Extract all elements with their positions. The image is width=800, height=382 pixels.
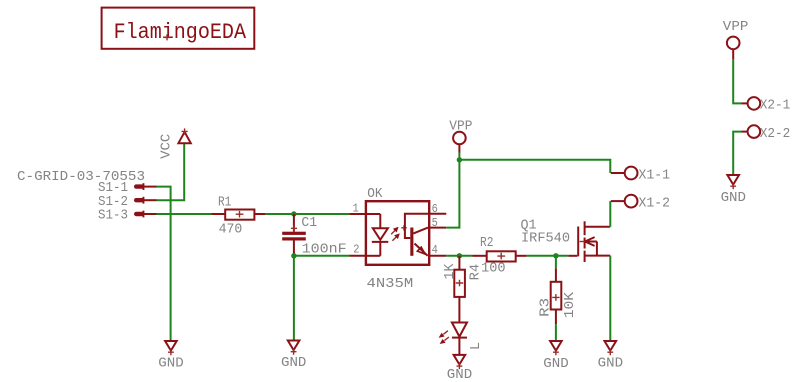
opto pin 1 xyxy=(349,203,366,216)
wire source down to GND xyxy=(609,256,611,341)
junction at C1 bottom xyxy=(291,253,296,258)
svg-text:GND: GND xyxy=(598,355,623,371)
pin S1-3 xyxy=(98,207,157,223)
svg-text:R2: R2 xyxy=(480,235,493,251)
svg-text:4N35M: 4N35M xyxy=(367,276,414,292)
wire R3 to GND xyxy=(555,324,557,340)
opto pin 2 xyxy=(350,244,366,257)
svg-text:GND: GND xyxy=(447,367,472,382)
svg-text:GND: GND xyxy=(158,355,183,371)
svg-text:2: 2 xyxy=(353,244,359,257)
resistor R4 xyxy=(442,256,483,297)
wire junction down to R3 xyxy=(555,256,557,269)
svg-text:10K: 10K xyxy=(562,291,578,318)
svg-text:X1-1: X1-1 xyxy=(639,167,671,183)
svg-text:X2-1: X2-1 xyxy=(760,98,791,114)
svg-text:GND: GND xyxy=(543,356,568,372)
pin X2-2 xyxy=(742,125,791,142)
ground GND (left, under S1) xyxy=(158,341,183,371)
LED D (value L) xyxy=(452,297,484,355)
junction at C1 top xyxy=(291,211,296,216)
ground GND (under C1) xyxy=(281,341,306,372)
svg-text:R1: R1 xyxy=(218,195,231,211)
resistor R2 xyxy=(473,235,527,276)
supply VCC xyxy=(159,128,191,159)
svg-text:R4: R4 xyxy=(467,264,483,281)
supply VPP (top right) xyxy=(723,19,749,59)
svg-text:L: L xyxy=(468,342,484,350)
transistor Q1 MOSFET symbol xyxy=(568,221,610,262)
svg-text:IRF540: IRF540 xyxy=(521,231,570,247)
svg-text:FlamingoEDA: FlamingoEDA xyxy=(114,19,247,45)
pin X2-1 xyxy=(742,97,791,114)
resistor R3 xyxy=(538,268,578,324)
wire pin5 to VPP column xyxy=(446,160,459,228)
junction VPP node xyxy=(457,157,462,162)
opto light arrows xyxy=(391,227,400,241)
pin S1-1 xyxy=(98,180,157,196)
opto origin cross xyxy=(401,225,407,231)
svg-text:GND: GND xyxy=(281,355,306,371)
pin S1-2 xyxy=(98,194,157,210)
junction pin4/R4 xyxy=(457,253,462,258)
wire S1-3 to R1 xyxy=(157,213,212,215)
logo frame FlamingoEDA xyxy=(102,8,255,49)
opto-coupler OK 4N35M xyxy=(366,186,429,292)
svg-text:X1-2: X1-2 xyxy=(639,195,671,211)
wire X2-2 to GND xyxy=(733,132,741,175)
svg-text:S1-3: S1-3 xyxy=(98,207,128,223)
wire S1-2 to VCC xyxy=(157,143,185,200)
wire drain up to X1-2 xyxy=(609,201,611,227)
pin X1-1 xyxy=(611,167,670,184)
wire C1 to opto pin2 xyxy=(294,255,350,257)
supply VPP (mid) xyxy=(449,118,472,160)
opto pin 5 xyxy=(429,217,446,230)
pin X1-2 xyxy=(611,195,670,212)
ground GND (under Q1) xyxy=(598,341,623,371)
wire R2 to gate/R3 xyxy=(527,255,569,257)
ground GND (under LED) xyxy=(447,355,472,382)
svg-text:100: 100 xyxy=(481,260,506,276)
opto pin 4 xyxy=(429,244,446,257)
ground GND (top right) xyxy=(721,175,746,206)
svg-text:470: 470 xyxy=(219,222,243,238)
transistor Q1 IRF540 labels xyxy=(521,217,571,246)
ground GND (under R3) xyxy=(543,341,568,372)
svg-text:GND: GND xyxy=(721,190,746,206)
wire VPP to X2-1 xyxy=(733,59,741,103)
wire S1-1 to GND column xyxy=(157,187,171,341)
wire VPP node to X1-1 xyxy=(459,160,610,173)
opto internal transistor xyxy=(405,214,429,256)
resistor R1 xyxy=(212,195,266,238)
svg-text:1K: 1K xyxy=(442,263,458,279)
wire pin4 to R2 xyxy=(446,255,472,257)
junction R3/gate xyxy=(553,253,558,258)
svg-text:OK: OK xyxy=(367,186,383,202)
wire R1 to opto pin1 xyxy=(265,213,349,215)
svg-text:X2-2: X2-2 xyxy=(760,126,791,142)
svg-text:C1: C1 xyxy=(301,215,317,231)
svg-text:VPP: VPP xyxy=(723,19,749,35)
wire C1 down to GND xyxy=(293,256,295,341)
opto internal LED xyxy=(366,214,388,256)
opto pin 6 (n.c.) xyxy=(429,203,446,216)
svg-text:VCC: VCC xyxy=(159,134,175,159)
LED light arrows xyxy=(439,331,449,344)
capacitor C1 xyxy=(282,214,346,258)
